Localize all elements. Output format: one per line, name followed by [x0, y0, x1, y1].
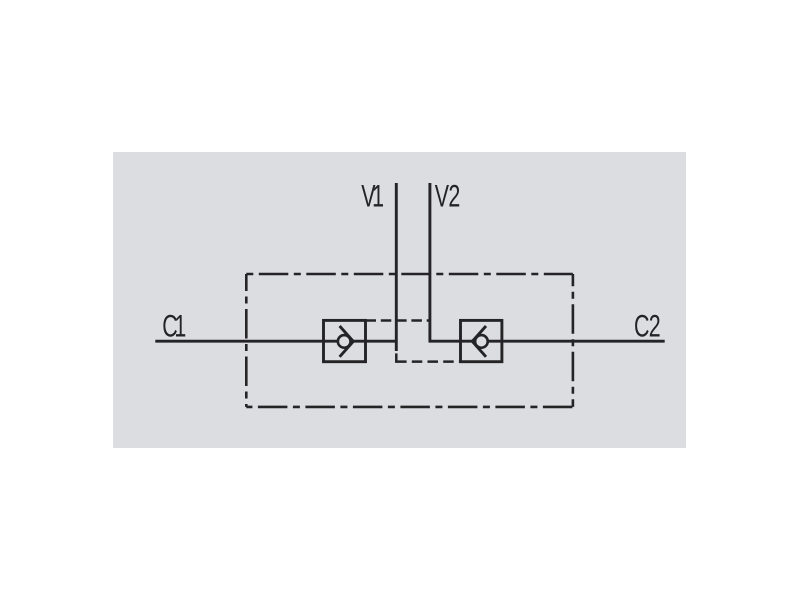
svg-text:V2: V2: [435, 178, 460, 213]
svg-text:C1: C1: [162, 308, 185, 343]
svg-text:V1: V1: [361, 178, 383, 213]
svg-text:C2: C2: [634, 308, 660, 343]
